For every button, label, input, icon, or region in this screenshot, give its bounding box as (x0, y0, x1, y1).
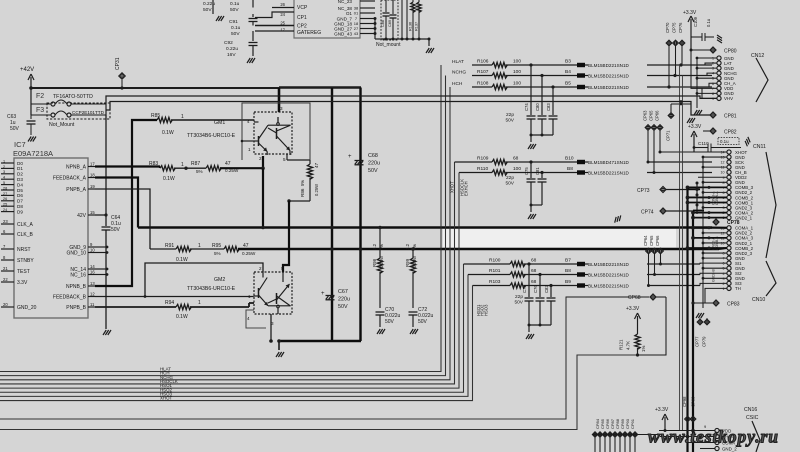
svg-text:R94: R94 (165, 300, 174, 306)
svg-text:+42V: +42V (20, 67, 34, 73)
wire GM1 pin3 drop (278, 88, 281, 112)
svg-text:2: 2 (3, 165, 5, 169)
svg-text:0.1u: 0.1u (230, 1, 240, 7)
svg-text:11: 11 (90, 302, 95, 307)
svg-text:R121: R121 (619, 339, 624, 350)
svg-text:12: 12 (90, 292, 95, 297)
svg-text:68: 68 (531, 279, 537, 285)
svg-text:0.1W: 0.1W (176, 257, 188, 263)
svg-text:D4: D4 (17, 182, 23, 187)
wire si1 (700, 262, 727, 265)
connector CN12 bracket (756, 58, 768, 102)
wire R86 to riser (289, 200, 310, 202)
svg-text:CP81: CP81 (724, 114, 737, 120)
testpoint CP81 (710, 112, 716, 118)
svg-text:D9: D9 (17, 209, 23, 214)
svg-text:C110: C110 (698, 141, 709, 146)
svg-text:B9: B9 (565, 279, 571, 285)
svg-text:+3.3V: +3.3V (688, 124, 702, 130)
svg-text:19: 19 (90, 184, 95, 189)
svg-text:100: 100 (513, 59, 521, 65)
wire long line A (0, 297, 649, 419)
svg-text:47: 47 (225, 161, 231, 167)
ground caps 2 (528, 214, 531, 219)
power 3.3V r121 arrow (637, 316, 639, 330)
wire pnpb_a (95, 189, 150, 249)
wire GM1 pin2 (262, 156, 264, 168)
svg-text:CP80: CP80 (724, 49, 737, 55)
wire cn16 coma row (688, 442, 715, 444)
svg-text:B3: B3 (565, 59, 571, 65)
capacitor C83 (552, 87, 554, 115)
svg-text:CP66: CP66 (655, 235, 660, 246)
testpoint CP82 (710, 128, 716, 134)
wire GM1 internal (277, 117, 279, 123)
svg-text:CP68: CP68 (628, 295, 641, 301)
wire cn12 gnd bus (696, 58, 698, 103)
svg-text:13: 13 (90, 281, 95, 286)
capacitor C72 (409, 311, 418, 313)
transistor GM1 Q-right (276, 128, 278, 139)
wire exhch feed (459, 172, 492, 174)
svg-text:R91: R91 (165, 243, 174, 249)
wire cn11 stubs (703, 156, 727, 158)
testpoint CP74 (660, 208, 666, 214)
transistor GM2 Q-left (258, 288, 260, 298)
test point CP31 (119, 73, 125, 79)
svg-text:C75: C75 (524, 167, 529, 175)
ground C70 (377, 329, 380, 334)
svg-text:4: 4 (3, 176, 5, 180)
connector CN12 pins (717, 56, 721, 60)
svg-text:PNPB_B: PNPB_B (66, 305, 86, 311)
svg-text:BLM15BD221SN1D: BLM15BD221SN1D (588, 262, 630, 267)
testpoint CP98 (685, 416, 691, 422)
svg-text:R83: R83 (149, 161, 158, 167)
wire cn12 vdd (691, 63, 717, 88)
connector CN10 pins (727, 226, 731, 230)
svg-text:COMA-A: COMA-A (715, 191, 719, 205)
svg-text:Not_mount: Not_mount (376, 42, 401, 48)
svg-text:F2: F2 (36, 93, 44, 100)
transistor GM1 Q-left (258, 136, 260, 146)
svg-text:CP79: CP79 (702, 336, 707, 347)
svg-text:0.1u: 0.1u (720, 139, 729, 144)
wire GM1 pin1 stub (242, 140, 254, 142)
svg-text:50V: 50V (418, 319, 428, 325)
testpoint CP71 (668, 113, 674, 119)
svg-text:PNPB_A: PNPB_A (66, 187, 86, 193)
wire cn10 stubs (693, 227, 727, 229)
svg-text:C81: C81 (535, 167, 540, 175)
svg-text:1: 1 (248, 147, 251, 152)
svg-text:CP65: CP65 (649, 235, 654, 246)
svg-text:TF16ATO-50TTD: TF16ATO-50TTD (53, 94, 93, 100)
testpoint CP70 (666, 40, 672, 46)
wire CP31 to rail (121, 80, 123, 88)
svg-text:3: 3 (3, 170, 5, 174)
capacitor C92 (252, 31, 254, 41)
svg-text:5%: 5% (196, 169, 203, 174)
wire 42V pin to C64 (95, 214, 106, 216)
svg-text:NC_16: NC_16 (70, 273, 86, 279)
svg-text:5%: 5% (214, 251, 221, 256)
wire cp70 drop (668, 46, 670, 87)
testpoint CP78 (713, 219, 719, 225)
svg-text:100: 100 (513, 166, 521, 172)
IC top box (294, 0, 360, 38)
svg-text:D7: D7 (17, 199, 23, 204)
svg-text:100: 100 (513, 69, 521, 75)
svg-text:CP82: CP82 (724, 130, 737, 136)
svg-text:CP31: CP31 (115, 57, 121, 70)
svg-text:BLM15BD221SN1D: BLM15BD221SN1D (588, 85, 630, 90)
wire c109 (691, 36, 702, 38)
svg-text:50V: 50V (203, 7, 212, 13)
svg-text:50V: 50V (231, 31, 240, 37)
wire NC stubs (95, 268, 107, 270)
svg-text:CP98: CP98 (682, 396, 687, 407)
svg-text:21: 21 (3, 266, 8, 271)
wire fuse join (30, 104, 32, 115)
wire cn11 gnd bus (702, 157, 704, 282)
svg-text:68: 68 (531, 258, 537, 264)
resistor R87 (174, 167, 206, 169)
wire NPNB_B riser (95, 120, 157, 286)
svg-text:B8: B8 (565, 268, 571, 274)
resistor R95 (190, 248, 224, 250)
resistor R91 (150, 248, 176, 250)
svg-text:NRST: NRST (17, 247, 31, 253)
svg-text:GATEREG: GATEREG (297, 30, 321, 36)
fuse F3 dashed box (47, 103, 110, 119)
svg-text:NC_23: NC_23 (338, 0, 353, 4)
svg-text:R108: R108 (477, 81, 489, 87)
svg-text:17: 17 (90, 162, 95, 167)
svg-text:CP1: CP1 (297, 15, 307, 21)
svg-text:CP74: CP74 (641, 210, 654, 216)
svg-text:CP91: CP91 (630, 418, 635, 429)
svg-text:D8: D8 (17, 204, 23, 209)
svg-text:0.22u: 0.22u (226, 46, 238, 52)
notmount dashed box (381, 0, 398, 40)
svg-text:GND_43: GND_43 (334, 32, 352, 37)
resistor R98 (379, 228, 381, 259)
svg-text:R110: R110 (477, 166, 488, 172)
wire thin vert a (679, 65, 681, 430)
connector CN16 pins (715, 428, 719, 432)
svg-text:42V: 42V (77, 213, 87, 219)
svg-text:HSO3: HSO3 (483, 304, 488, 316)
svg-text:50V: 50V (385, 319, 395, 325)
svg-text:0.1u: 0.1u (231, 25, 241, 31)
testpoint CP63 (645, 125, 651, 131)
svg-text:10: 10 (90, 248, 95, 253)
fuse F2 (51, 102, 55, 106)
transistor GM2 Q-right (276, 293, 278, 304)
svg-text:CN16: CN16 (744, 407, 757, 413)
svg-text:C92: C92 (224, 40, 233, 46)
svg-text:12: 12 (721, 161, 725, 165)
transistor module GM2 box (254, 272, 292, 314)
ground C63 (28, 137, 31, 142)
wire GM1 pin5 (286, 154, 288, 160)
wire NPNB_A (95, 165, 160, 167)
wire 42V drop x360 (359, 88, 361, 342)
fuse F3 (51, 113, 55, 117)
ground C109 (717, 35, 722, 43)
svg-text:C89: C89 (388, 20, 392, 27)
capacitor C74 (530, 65, 532, 115)
resistor R94 (95, 306, 176, 308)
svg-text:2: 2 (259, 156, 262, 161)
connector CN10 bracket (766, 261, 776, 296)
capacitor C82 (550, 286, 552, 298)
svg-text:GND_20: GND_20 (17, 305, 37, 311)
ground cn10 area (702, 282, 704, 308)
svg-text:TH: TH (735, 286, 741, 291)
svg-text:20: 20 (3, 302, 8, 307)
resistor R86 (309, 160, 311, 164)
wire thick vert 687 (686, 188, 688, 452)
svg-text:1: 1 (3, 159, 5, 163)
svg-text:4: 4 (247, 119, 250, 124)
svg-text:B4: B4 (565, 69, 571, 75)
svg-text:1: 1 (198, 300, 201, 306)
svg-text:5: 5 (283, 157, 286, 162)
svg-text:CP70: CP70 (665, 22, 670, 33)
svg-text:C67: C67 (338, 289, 348, 295)
svg-text:CSIC: CSIC (746, 415, 759, 421)
wire cp66 drop (659, 131, 661, 153)
wire cp66b drop (660, 254, 662, 264)
wire cp80 (691, 49, 710, 51)
svg-text:R136: R136 (409, 22, 413, 31)
svg-text:BLM15BD221SN1D: BLM15BD221SN1D (588, 73, 630, 78)
svg-text:D0: D0 (17, 161, 23, 166)
resistor R121 (637, 330, 639, 334)
resistor R83 (160, 166, 175, 171)
ground top caps (216, 16, 219, 21)
svg-text:TT3034B6-URC10-E: TT3034B6-URC10-E (187, 133, 236, 139)
wire cp64b drop (648, 254, 650, 286)
svg-text:BLM15BD221SN1D: BLM15BD221SN1D (588, 272, 630, 277)
ground C110 (743, 137, 752, 146)
svg-text:50V: 50V (505, 118, 514, 124)
notmount caps (385, 0, 387, 12)
wire GND9/10 stubs (95, 246, 107, 248)
wire cn12 cha (647, 83, 717, 87)
svg-text:0.25W: 0.25W (242, 251, 256, 256)
svg-text:220u: 220u (338, 297, 350, 303)
svg-text:VHV: VHV (724, 96, 733, 101)
svg-text:25: 25 (3, 203, 7, 207)
svg-text:BLM15BD221SN1D: BLM15BD221SN1D (588, 170, 630, 175)
wire notmount verticals (401, 0, 403, 39)
capacitor C67 (326, 295, 335, 297)
svg-text:22p: 22p (515, 294, 523, 300)
svg-text:C74: C74 (524, 103, 529, 111)
resistor R137 (418, 0, 420, 2)
svg-text:Not_Mount: Not_Mount (49, 122, 75, 128)
wire VHV line (106, 96, 717, 104)
svg-text:R106: R106 (477, 59, 489, 65)
resistor R85 (157, 117, 172, 122)
svg-text:3: 3 (280, 106, 283, 111)
svg-text:17: 17 (280, 28, 285, 33)
svg-text:100: 100 (513, 81, 521, 87)
svg-text:5%: 5% (300, 180, 305, 186)
wire si3 (700, 283, 727, 285)
capacitor C75 (530, 162, 532, 178)
svg-text:C68: C68 (368, 153, 378, 159)
svg-text:50V: 50V (514, 300, 523, 306)
connector CN11 bracket (766, 152, 776, 258)
svg-text:B5: B5 (565, 81, 571, 87)
svg-text:28: 28 (3, 186, 7, 190)
svg-text:22: 22 (3, 277, 8, 282)
svg-text:C80: C80 (535, 103, 540, 111)
svg-text:NCHG: NCHG (452, 70, 466, 76)
svg-text:C109: C109 (693, 16, 698, 27)
svg-text:C82: C82 (544, 285, 549, 293)
svg-text:26: 26 (280, 2, 285, 7)
svg-text:NPNB_B: NPNB_B (66, 284, 87, 290)
wire si2 (700, 273, 727, 274)
wire cn12 vhv (702, 97, 717, 99)
svg-text:FEEDBACK_B: FEEDBACK_B (53, 295, 87, 301)
svg-text:+3.3V: +3.3V (626, 306, 640, 312)
svg-text:50V: 50V (10, 126, 20, 132)
svg-text:47: 47 (314, 162, 319, 168)
testpoint CP75 (673, 40, 679, 46)
capacitor C81 (541, 173, 543, 179)
power 3.3V cn11 arrow (693, 134, 695, 152)
wire top ic gnd join (374, 19, 376, 40)
svg-text:GND2-B: GND2-B (712, 268, 716, 282)
svg-text:D3: D3 (17, 177, 23, 182)
svg-text:CN11: CN11 (753, 144, 766, 150)
wire 42V vertical (105, 115, 107, 226)
svg-text:2.2: 2.2 (405, 243, 410, 250)
svg-text:C83: C83 (546, 103, 551, 111)
svg-text:B7: B7 (565, 258, 571, 264)
svg-text:25: 25 (280, 21, 285, 26)
wire GM2 bottom thick (279, 340, 361, 342)
svg-text:GND_10: GND_10 (67, 251, 87, 257)
capacitor C110 (694, 147, 708, 149)
svg-text:16V: 16V (227, 52, 236, 58)
svg-text:0.25W: 0.25W (314, 184, 319, 196)
wire watermark row (660, 436, 715, 438)
svg-text:22p: 22p (506, 112, 514, 118)
svg-text:GND_2: GND_2 (722, 446, 737, 451)
capacitor C91 (252, 14, 254, 17)
svg-text:CP99: CP99 (691, 396, 696, 407)
ground GM2 (278, 341, 280, 350)
svg-text:NPNB_A: NPNB_A (66, 165, 87, 171)
svg-text:CLK_B: CLK_B (17, 232, 34, 238)
svg-text:4: 4 (247, 316, 250, 321)
resistor R136 (412, 0, 414, 2)
capacitor C70 (376, 311, 385, 313)
svg-text:50V: 50V (230, 7, 239, 13)
wire rail 249 (238, 248, 719, 250)
svg-text:C91: C91 (229, 19, 238, 25)
svg-text:1: 1 (181, 162, 184, 168)
wire feedback_b (95, 263, 263, 297)
ground IC7 bottom (103, 330, 106, 335)
svg-text:+3.3V: +3.3V (683, 10, 697, 16)
IC7 data pins D0-D9 (1, 162, 14, 164)
svg-text:VCP: VCP (297, 5, 308, 11)
svg-text:C76: C76 (533, 285, 538, 293)
svg-text:C73: C73 (522, 285, 527, 293)
ground caps 3 (526, 334, 529, 339)
svg-text:26: 26 (3, 197, 7, 201)
wire thick vert 693 (692, 211, 694, 452)
testpoint CP66 (657, 125, 663, 131)
svg-text:D1: D1 (17, 166, 23, 171)
svg-text:1%: 1% (641, 346, 646, 352)
svg-text:CP71: CP71 (666, 130, 671, 141)
svg-text:43: 43 (354, 31, 359, 36)
svg-text:24: 24 (3, 208, 7, 212)
svg-text:CP78: CP78 (727, 220, 740, 226)
connector CN11 pins (727, 150, 731, 154)
svg-text:CP66: CP66 (655, 110, 660, 121)
svg-text:D2: D2 (17, 172, 23, 177)
svg-text:50V: 50V (505, 181, 514, 187)
wire rail227 drop to GM1pin2 (262, 168, 264, 227)
svg-text:0.1W: 0.1W (163, 176, 175, 182)
capacitor C68 (355, 160, 364, 162)
testpoint CP77 (697, 319, 703, 325)
ground C92 (247, 58, 250, 63)
capacitor C80 (541, 76, 543, 116)
power +42V arrow (30, 77, 32, 88)
svg-text:16: 16 (90, 270, 95, 275)
wire c110 gnd (714, 147, 741, 149)
svg-text:15: 15 (90, 210, 95, 215)
connector CN16 bracket (752, 421, 760, 452)
svg-text:2: 2 (259, 266, 262, 271)
svg-text:1: 1 (181, 114, 184, 120)
svg-text:CLK_A: CLK_A (17, 222, 34, 228)
svg-text:220u: 220u (368, 161, 380, 167)
svg-text:0.1u: 0.1u (706, 18, 711, 27)
wire GM2 pin5 riser (283, 201, 289, 272)
svg-text:+: + (321, 291, 325, 297)
wire long line B (0, 355, 638, 430)
ground caps 1 (528, 144, 531, 149)
svg-text:E09A7218A: E09A7218A (13, 149, 53, 158)
svg-text:4.7K: 4.7K (626, 341, 631, 350)
svg-text:R107: R107 (477, 69, 489, 75)
testpoint CP64b (646, 248, 652, 254)
wire +42V rail (31, 87, 279, 89)
svg-text:CP77: CP77 (695, 336, 700, 347)
ground notmount (426, 48, 429, 53)
svg-text:B10: B10 (565, 156, 574, 162)
svg-text:GM1: GM1 (214, 120, 225, 126)
svg-text:O1: O1 (346, 11, 353, 16)
ground C72 (410, 329, 413, 334)
wire GM1 thin box (242, 103, 310, 160)
svg-text:1: 1 (198, 243, 201, 249)
wire cn12 nchg (647, 73, 717, 75)
wire th (705, 288, 727, 303)
